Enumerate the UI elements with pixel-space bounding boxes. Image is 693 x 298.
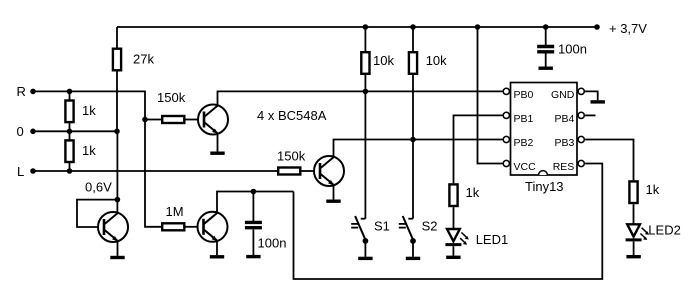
wire T4 emitter bbox=[117, 241, 119, 256]
node divider bottom bbox=[67, 168, 73, 174]
wire PB4 stub bbox=[585, 114, 596, 116]
node rail to VCC column bbox=[475, 24, 481, 30]
svg-text:100n: 100n bbox=[258, 236, 287, 251]
svg-text:PB4: PB4 bbox=[554, 113, 574, 125]
wire T2 collector to RES net bbox=[217, 192, 294, 213]
resistor R2 1k bbox=[65, 101, 73, 123]
svg-text:150k: 150k bbox=[157, 90, 186, 105]
LED2 diode bbox=[626, 224, 650, 240]
wire S1 to ground bbox=[364, 241, 366, 257]
switch S1 actuator ticks bbox=[351, 223, 358, 225]
wire 1M feed from R column handled above; resistor R5 1M bbox=[162, 223, 184, 230]
wire GND pin to ground bbox=[585, 91, 598, 100]
svg-text:1k: 1k bbox=[466, 185, 480, 200]
wire R input line bbox=[33, 91, 161, 226]
svg-text:S2: S2 bbox=[422, 218, 438, 233]
node 100n tap on RES net bbox=[251, 189, 257, 195]
node 0 joins 27k column bbox=[114, 129, 120, 135]
ground T1 emitter bbox=[210, 152, 224, 154]
IC notch bbox=[539, 171, 548, 175]
svg-text:1M: 1M bbox=[166, 204, 184, 219]
capacitor C2 100n bbox=[537, 45, 554, 48]
switch S1 fixed contact foot bbox=[361, 218, 366, 220]
wire T1 emitter bbox=[217, 134, 219, 152]
node rail to 10k R7 bbox=[363, 24, 369, 30]
svg-text:PB1: PB1 bbox=[514, 113, 534, 125]
svg-text:27k: 27k bbox=[133, 52, 154, 67]
svg-text:Tiny13: Tiny13 bbox=[525, 179, 564, 194]
resistor R1 27k bbox=[113, 49, 121, 71]
node T4 collector-base tie bbox=[115, 197, 121, 203]
node 10k R8 joins PB2 line bbox=[410, 137, 416, 143]
wire 27k column x=117 rail to node 0 bbox=[116, 27, 118, 131]
wire 150k to T1 base bbox=[186, 119, 198, 121]
resistor R9 1k bbox=[449, 184, 457, 206]
wire PB3 to 1k R10 bbox=[585, 140, 634, 181]
svg-text:100n: 100n bbox=[558, 42, 587, 57]
ground IC GND bbox=[591, 101, 605, 103]
transistor T2 BC548A bbox=[198, 212, 228, 242]
wire 27k column to T4 collector bbox=[116, 131, 118, 212]
wire C2 bottom lead bbox=[545, 54, 547, 67]
wire LED1 to ground bbox=[452, 246, 454, 256]
wire 1M to T2 base bbox=[186, 226, 198, 228]
wire T1 collector to PB0 bbox=[218, 91, 503, 105]
node divider middle bbox=[67, 129, 73, 135]
pin VCC bbox=[503, 160, 509, 166]
svg-text:10k: 10k bbox=[426, 53, 447, 68]
ground LED2 bbox=[626, 256, 640, 258]
wire C2 top lead bbox=[545, 27, 547, 45]
node R to 150k junction bbox=[142, 117, 148, 123]
node R terminal bbox=[30, 89, 36, 95]
ground LED1 bbox=[446, 256, 460, 258]
wire 150k feed bbox=[145, 119, 161, 121]
wire 10k R8 column bbox=[412, 27, 414, 219]
svg-text:1k: 1k bbox=[82, 103, 96, 118]
node rail to C2 bbox=[543, 24, 549, 30]
svg-text:VCC: VCC bbox=[514, 161, 537, 173]
node 10k R7 joins PB0 line bbox=[363, 89, 369, 95]
switch S2 fixed contact foot bbox=[408, 218, 413, 220]
svg-text:LED1: LED1 bbox=[476, 232, 509, 247]
svg-text:GND: GND bbox=[551, 89, 575, 101]
svg-text:+ 3,7V: + 3,7V bbox=[609, 21, 647, 36]
pin PB3 bbox=[578, 136, 584, 142]
wire S2 to ground bbox=[412, 241, 414, 257]
resistor R3 1k bbox=[65, 140, 73, 162]
wire L input line to 150k bbox=[33, 170, 277, 172]
svg-text:0,6V: 0,6V bbox=[85, 180, 112, 195]
pin PB1 bbox=[503, 112, 509, 118]
wire 100n bottom lead bbox=[252, 229, 254, 255]
wire 10k R7 column bbox=[364, 27, 366, 219]
ground T2 emitter bbox=[210, 256, 224, 258]
resistor R10 1k bbox=[629, 181, 637, 203]
pin RES bbox=[578, 160, 584, 166]
svg-text:150k: 150k bbox=[277, 149, 306, 164]
svg-text:S1: S1 bbox=[374, 218, 390, 233]
svg-text:10k: 10k bbox=[373, 53, 394, 68]
node S2 pivot bbox=[410, 238, 416, 244]
node rail to 10k R8 bbox=[410, 24, 416, 30]
wire RES net to T2 collector bbox=[294, 164, 603, 280]
svg-text:PB2: PB2 bbox=[514, 137, 534, 149]
node S1 pivot bbox=[363, 238, 369, 244]
switch S1 arm bbox=[355, 216, 366, 240]
wire T2 emitter bbox=[216, 241, 218, 255]
resistor R8 10k bbox=[409, 52, 417, 74]
resistor R6 150k bbox=[278, 168, 300, 175]
node divider top bbox=[67, 89, 73, 95]
pin PB0 bbox=[503, 88, 509, 94]
capacitor C1 100n bbox=[245, 221, 262, 224]
svg-text:1k: 1k bbox=[82, 143, 96, 158]
transistor T3 BC548A bbox=[314, 156, 344, 186]
wire PB1 to 1k R9 bbox=[454, 115, 503, 183]
wire 0 input line bbox=[33, 130, 117, 132]
node 0 terminal bbox=[30, 129, 36, 135]
wire T3 emitter bbox=[333, 185, 335, 199]
node L terminal bbox=[30, 168, 36, 174]
wire top supply rail bbox=[117, 26, 597, 28]
ground C2 bbox=[539, 67, 553, 69]
resistor R7 10k bbox=[361, 52, 369, 74]
svg-text:PB0: PB0 bbox=[514, 89, 534, 101]
op IC U1 Tiny13 body bbox=[511, 83, 578, 176]
svg-text:R: R bbox=[17, 84, 26, 99]
resistor R4 150k bbox=[162, 116, 184, 123]
pin PB2 bbox=[503, 136, 509, 142]
svg-text:1k: 1k bbox=[646, 182, 660, 197]
wire 1k R10 to LED2 bbox=[633, 204, 635, 224]
ground T4 emitter bbox=[110, 257, 124, 259]
wire 1k R9 to LED1 bbox=[453, 207, 455, 229]
ground S2 bbox=[406, 257, 420, 259]
transistor T1 BC548A bbox=[198, 105, 228, 135]
wire 150k to T3 base bbox=[302, 170, 314, 172]
wire T4 base loop bbox=[77, 200, 117, 227]
pin GND bbox=[578, 88, 584, 94]
ground C1 bbox=[246, 256, 260, 258]
switch S2 actuator ticks bbox=[399, 223, 406, 225]
transistor T4 BC548A diode-connected bbox=[98, 212, 128, 242]
switch S2 arm bbox=[403, 216, 414, 240]
node supply end dot bbox=[594, 24, 600, 30]
wire 100n top lead bbox=[252, 192, 254, 222]
wire divider column x=69.5 bbox=[69, 91, 71, 171]
svg-text:L: L bbox=[17, 164, 24, 179]
pin PB4 bbox=[578, 112, 584, 118]
ground T3 emitter bbox=[326, 200, 340, 202]
svg-text:LED2: LED2 bbox=[648, 223, 681, 238]
wire VCC column from rail bbox=[478, 27, 503, 164]
svg-text:PB3: PB3 bbox=[554, 137, 574, 149]
LED1 diode bbox=[445, 229, 469, 245]
svg-text:RES: RES bbox=[553, 161, 575, 173]
ground S1 bbox=[358, 257, 372, 259]
svg-text:0: 0 bbox=[17, 124, 24, 139]
wire T3 collector to PB2 bbox=[334, 140, 503, 157]
svg-text:4 x BC548A: 4 x BC548A bbox=[257, 108, 327, 123]
wire LED2 to ground bbox=[633, 242, 635, 256]
